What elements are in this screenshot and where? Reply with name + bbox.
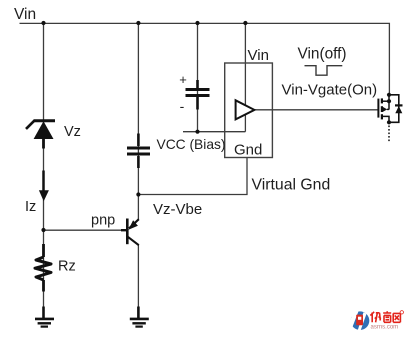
svg-text:Vin: Vin bbox=[14, 6, 36, 23]
svg-text:Rz: Rz bbox=[58, 259, 76, 275]
svg-text:-: - bbox=[180, 98, 185, 114]
svg-text:Vin(off): Vin(off) bbox=[298, 46, 347, 63]
svg-text:+: + bbox=[179, 72, 187, 87]
svg-text:asrns.com: asrns.com bbox=[371, 325, 399, 331]
svg-text:Vz-Vbe: Vz-Vbe bbox=[153, 201, 202, 218]
svg-text:Vz: Vz bbox=[64, 124, 81, 140]
svg-text:Vin: Vin bbox=[248, 47, 269, 64]
svg-text:Virtual Gnd: Virtual Gnd bbox=[252, 177, 331, 194]
svg-text:Iz: Iz bbox=[25, 199, 36, 215]
svg-text:pnp: pnp bbox=[91, 213, 115, 229]
svg-text:VCC (Bias): VCC (Bias) bbox=[157, 137, 226, 152]
svg-text:Gnd: Gnd bbox=[234, 142, 262, 159]
svg-text:Vin-Vgate(On): Vin-Vgate(On) bbox=[282, 82, 378, 99]
